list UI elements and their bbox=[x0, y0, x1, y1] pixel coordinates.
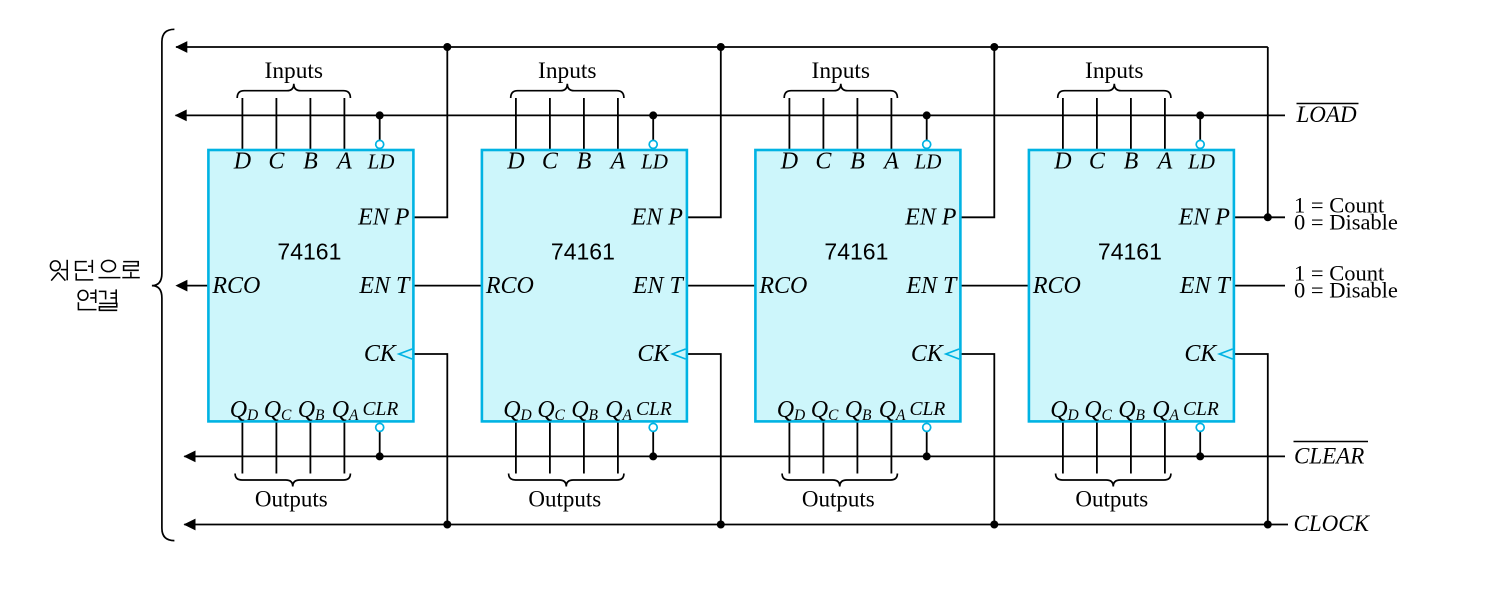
wire: EN T of U3 bbox=[960, 285, 1029, 287]
junction top bus / U3 bbox=[990, 43, 998, 51]
svg-text:B: B bbox=[850, 149, 865, 175]
svg-text:LD: LD bbox=[914, 150, 942, 174]
svg-text:Inputs: Inputs bbox=[265, 58, 323, 84]
arrowhead LOAD bus bbox=[175, 110, 187, 122]
wire: LD pin of U4 to LOAD bus bbox=[1199, 115, 1201, 140]
wire: CK of U3 to CLOCK bus bbox=[960, 354, 994, 525]
junction CLEAR / U3 bbox=[923, 452, 931, 460]
counter U1 74161 bbox=[208, 140, 413, 431]
wire: CLR pin of U2 to CLEAR bus bbox=[652, 432, 654, 457]
junction top bus / U2 bbox=[717, 43, 725, 51]
svg-text:A: A bbox=[882, 149, 899, 175]
wire: CLOCK bus bbox=[184, 524, 1288, 526]
svg-text:0 = Disable: 0 = Disable bbox=[1294, 210, 1398, 235]
wire: top enable bus bbox=[176, 46, 1268, 48]
svg-text:Inputs: Inputs bbox=[1085, 58, 1143, 84]
svg-text:A: A bbox=[335, 149, 352, 175]
arrowhead CLOCK bus bbox=[184, 519, 196, 531]
svg-text:LOAD: LOAD bbox=[1296, 102, 1357, 127]
brace Inputs U3 bbox=[784, 84, 897, 98]
svg-text:CLOCK: CLOCK bbox=[1294, 511, 1371, 536]
svg-text:Inputs: Inputs bbox=[538, 58, 596, 84]
svg-text:C: C bbox=[1089, 149, 1106, 175]
label 1=Count 0=Disable (EN T) bbox=[1294, 260, 1398, 302]
svg-text:LD: LD bbox=[640, 150, 668, 174]
wire: input pins D C B A of U1 bbox=[242, 98, 344, 150]
wire: CK of U2 to CLOCK bus bbox=[687, 354, 721, 525]
svg-text:D: D bbox=[506, 149, 524, 175]
svg-text:EN P: EN P bbox=[904, 205, 957, 231]
svg-text:CK: CK bbox=[364, 341, 398, 367]
svg-text:74161: 74161 bbox=[1098, 239, 1162, 265]
svg-text:Outputs: Outputs bbox=[1075, 486, 1148, 511]
wire: CK of U1 to CLOCK bus bbox=[413, 354, 447, 525]
junction CLOCK / U2 bbox=[717, 521, 725, 529]
junction CLOCK / U4 bbox=[1264, 521, 1272, 529]
svg-text:LD: LD bbox=[1187, 150, 1215, 174]
wire: output pins Q of U3 bbox=[789, 421, 891, 473]
svg-text:CLR: CLR bbox=[1183, 399, 1219, 420]
svg-text:EN P: EN P bbox=[631, 205, 684, 231]
brace Inputs U2 bbox=[511, 84, 624, 98]
svg-text:RCO: RCO bbox=[758, 273, 807, 299]
svg-text:RCO: RCO bbox=[211, 273, 260, 299]
svg-text:74161: 74161 bbox=[277, 239, 341, 265]
svg-text:A: A bbox=[1156, 149, 1173, 175]
svg-text:RCO: RCO bbox=[485, 273, 534, 299]
wire: LD pin of U1 to LOAD bus bbox=[379, 115, 381, 140]
svg-text:74161: 74161 bbox=[824, 239, 888, 265]
junction LOAD / U3 bbox=[923, 111, 931, 119]
junction LOAD / U2 bbox=[649, 111, 657, 119]
wire: EN P of U1 to top bus bbox=[413, 47, 447, 217]
wire: CK of U4 to CLOCK bus bbox=[1234, 354, 1268, 525]
label 1=Count 0=Disable (EN P) bbox=[1294, 192, 1398, 234]
wire: input pins D C B A of U2 bbox=[516, 98, 618, 150]
svg-text:D: D bbox=[233, 149, 251, 175]
svg-text:Inputs: Inputs bbox=[812, 58, 870, 84]
wire: LD pin of U2 to LOAD bus bbox=[652, 115, 654, 140]
svg-text:Outputs: Outputs bbox=[802, 486, 875, 511]
arrowhead RCO out bbox=[175, 280, 187, 292]
wire: CLR pin of U1 to CLEAR bus bbox=[379, 432, 381, 457]
svg-text:74161: 74161 bbox=[551, 239, 615, 265]
junction CLOCK / U1 bbox=[443, 521, 451, 529]
wire: EN P of U2 to top bus bbox=[687, 47, 721, 217]
svg-text:CLR: CLR bbox=[636, 399, 672, 420]
wire: EN P of U4 to count label bbox=[1234, 216, 1285, 218]
svg-text:Outputs: Outputs bbox=[528, 486, 601, 511]
svg-text:CLR: CLR bbox=[910, 399, 946, 420]
wire: output pins Q of U1 bbox=[242, 421, 344, 473]
svg-text:C: C bbox=[268, 149, 285, 175]
svg-text:CK: CK bbox=[911, 341, 945, 367]
brace Outputs U3 bbox=[782, 474, 897, 487]
svg-text:EN T: EN T bbox=[358, 273, 411, 299]
junction CLEAR / U1 bbox=[376, 452, 384, 460]
wire: EN P of U3 to top bus bbox=[960, 47, 994, 217]
svg-text:EN T: EN T bbox=[905, 273, 958, 299]
net label LOAD (active low) bbox=[1296, 102, 1359, 127]
wire: CLR pin of U3 to CLEAR bus bbox=[926, 432, 928, 457]
wire: output pins Q of U2 bbox=[516, 421, 618, 473]
svg-text:CLR: CLR bbox=[363, 399, 399, 420]
left brace (connect to upper stage) bbox=[152, 29, 175, 540]
brace Outputs U4 bbox=[1056, 474, 1171, 487]
counter U3 74161 bbox=[755, 140, 960, 431]
svg-text:Outputs: Outputs bbox=[255, 486, 328, 511]
junction EN P U4 / top bus bbox=[1264, 213, 1272, 221]
counter U2 74161 bbox=[482, 140, 687, 431]
brace Outputs U1 bbox=[235, 474, 350, 487]
svg-text:EN T: EN T bbox=[1179, 273, 1232, 299]
wire: EN T of U1 bbox=[413, 285, 482, 287]
wire: input pins D C B A of U3 bbox=[789, 98, 891, 150]
wire: LOAD bus bbox=[176, 114, 1286, 116]
svg-text:CK: CK bbox=[637, 341, 671, 367]
svg-text:D: D bbox=[1053, 149, 1071, 175]
svg-text:EN P: EN P bbox=[357, 205, 410, 231]
wire: RCO out to upper stage bbox=[185, 285, 208, 287]
arrowhead CLEAR bus bbox=[184, 451, 196, 463]
wire: EN T of U4 bbox=[1234, 285, 1285, 287]
brace Inputs U4 bbox=[1058, 84, 1171, 98]
junction top bus / U1 bbox=[443, 43, 451, 51]
svg-text:RCO: RCO bbox=[1032, 273, 1081, 299]
junction LOAD / U1 bbox=[376, 111, 384, 119]
svg-text:B: B bbox=[303, 149, 318, 175]
wire: output pins Q of U4 bbox=[1063, 421, 1165, 473]
junction LOAD / U4 bbox=[1196, 111, 1204, 119]
svg-text:0 = Disable: 0 = Disable bbox=[1294, 278, 1398, 303]
label (Korean): connect to upper stage bbox=[50, 260, 139, 311]
wire: EN T of U2 bbox=[687, 285, 756, 287]
wire: CLEAR bus bbox=[184, 455, 1285, 457]
svg-text:EN T: EN T bbox=[632, 273, 685, 299]
wire: LD pin of U3 to LOAD bus bbox=[926, 115, 928, 140]
net label CLEAR (active low) bbox=[1294, 442, 1369, 469]
junction CLOCK / U3 bbox=[990, 521, 998, 529]
svg-text:C: C bbox=[542, 149, 559, 175]
wire: top bus drop to EN P of U4 bbox=[1267, 47, 1269, 217]
brace Inputs U1 bbox=[237, 84, 350, 98]
svg-text:B: B bbox=[1124, 149, 1139, 175]
counter U4 74161 bbox=[1029, 140, 1234, 431]
junction CLEAR / U2 bbox=[649, 452, 657, 460]
brace Outputs U2 bbox=[509, 474, 624, 487]
arrowhead top bus bbox=[175, 41, 187, 53]
svg-text:C: C bbox=[815, 149, 832, 175]
junction CLEAR / U4 bbox=[1196, 452, 1204, 460]
wire: input pins D C B A of U4 bbox=[1063, 98, 1165, 150]
svg-text:LD: LD bbox=[367, 150, 395, 174]
svg-text:B: B bbox=[577, 149, 592, 175]
wire: CLR pin of U4 to CLEAR bus bbox=[1199, 432, 1201, 457]
svg-text:EN P: EN P bbox=[1178, 205, 1231, 231]
svg-text:A: A bbox=[609, 149, 626, 175]
svg-text:CK: CK bbox=[1184, 341, 1218, 367]
svg-text:CLEAR: CLEAR bbox=[1294, 444, 1364, 469]
svg-text:D: D bbox=[780, 149, 798, 175]
